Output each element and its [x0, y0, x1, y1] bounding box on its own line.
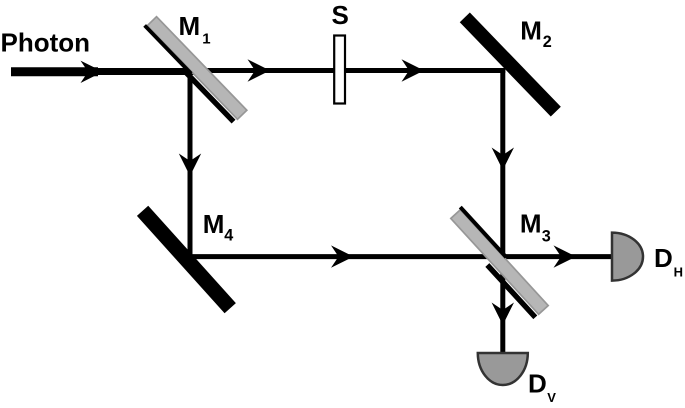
- svg-text:M: M: [520, 209, 542, 239]
- beamsplitter M1: [141, 15, 247, 124]
- arrow M1 to S: [248, 59, 271, 81]
- wire right vertical M2 to DV: [500, 68, 505, 354]
- arrow M1 down: [179, 154, 201, 177]
- label M1: [179, 11, 211, 48]
- wire left vertical M1 to M4: [188, 68, 193, 259]
- mirror M4: [137, 206, 236, 314]
- wire photon to M1: [95, 68, 198, 75]
- svg-text:D: D: [528, 368, 547, 398]
- label M3: [520, 209, 551, 246]
- svg-text:2: 2: [543, 33, 552, 51]
- svg-text:1: 1: [202, 30, 210, 47]
- detector DH: [612, 233, 643, 281]
- svg-text:S: S: [332, 0, 349, 30]
- svg-text:V: V: [547, 390, 556, 405]
- arrow S to M2: [402, 59, 425, 81]
- arrow M3 down to DV: [492, 303, 514, 326]
- svg-text:H: H: [674, 265, 683, 280]
- svg-text:M: M: [179, 11, 201, 41]
- svg-text:D: D: [654, 243, 673, 273]
- svg-text:4: 4: [224, 226, 233, 244]
- svg-text:M: M: [520, 16, 542, 46]
- svg-text:Photon: Photon: [1, 28, 91, 58]
- svg-text:3: 3: [542, 227, 551, 245]
- mirror M2: [460, 13, 561, 117]
- shutter S: [334, 36, 345, 104]
- arrow M4 to M3: [331, 245, 354, 267]
- wire top beam M1 to M2: [188, 68, 505, 73]
- wire bottom beam M4 to DH: [188, 254, 612, 259]
- label M4: [203, 209, 233, 244]
- label DH: [654, 243, 683, 279]
- arrow M3 to DH: [554, 245, 577, 267]
- label M2: [520, 16, 552, 51]
- label DV: [528, 368, 556, 405]
- svg-text:M: M: [203, 209, 225, 239]
- detector DV: [478, 353, 528, 385]
- arrow M2 down: [492, 148, 514, 171]
- beamsplitter M3: [444, 206, 551, 319]
- wire photon input (thick): [11, 67, 98, 76]
- arrow photon input: [81, 61, 104, 83]
